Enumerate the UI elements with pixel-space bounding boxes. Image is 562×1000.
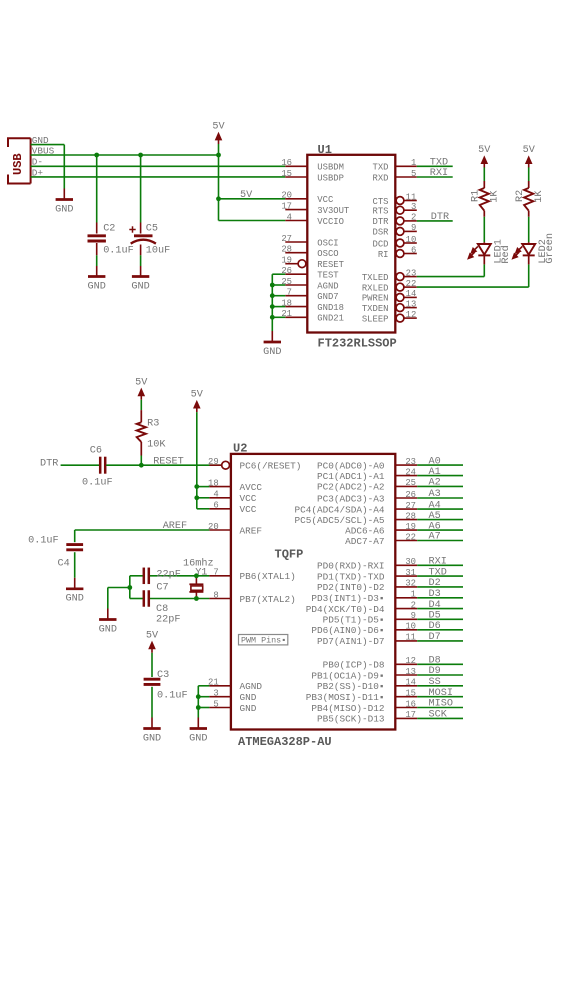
svg-text:7: 7 <box>287 288 292 298</box>
svg-text:4: 4 <box>287 212 292 222</box>
U1 pin 5 RXD <box>395 176 417 178</box>
junction VCC <box>216 196 221 201</box>
wire net MOSI <box>417 696 463 698</box>
wire net A1 <box>417 475 463 477</box>
U2 pin 19 ADC6-A6 <box>395 529 417 531</box>
svg-text:DTR: DTR <box>40 459 58 470</box>
LED LED1 <box>483 242 485 244</box>
svg-text:GND: GND <box>263 347 281 358</box>
svg-text:A1: A1 <box>429 467 441 478</box>
U2 pin 21 AGND <box>209 685 231 687</box>
svg-text:27: 27 <box>281 234 292 244</box>
svg-text:21: 21 <box>208 678 219 688</box>
svg-text:PB6(XTAL1): PB6(XTAL1) <box>240 571 296 582</box>
svg-text:22: 22 <box>406 279 417 289</box>
U2 pin 30 PD0(RXD)-RXI <box>395 564 417 566</box>
svg-text:ATMEGA328P-AU: ATMEGA328P-AU <box>238 735 332 749</box>
svg-text:D8: D8 <box>429 656 441 667</box>
svg-text:DSR: DSR <box>373 228 390 238</box>
svg-text:3: 3 <box>411 202 416 212</box>
svg-text:VCCIO: VCCIO <box>317 217 344 227</box>
wire VBUS net <box>31 154 219 156</box>
svg-text:32: 32 <box>405 579 416 589</box>
svg-text:ADC6-A6: ADC6-A6 <box>345 525 385 536</box>
U2 pin 20 AREF <box>209 529 231 531</box>
C5 plus sign <box>129 229 135 231</box>
U1 pin 26 TEST <box>285 273 307 275</box>
supply symbol 5V (C3) <box>148 641 156 650</box>
U1 pin 17 3V3OUT <box>285 209 307 211</box>
svg-text:TXDEN: TXDEN <box>362 304 389 314</box>
svg-text:5: 5 <box>411 169 416 179</box>
svg-text:RXD: RXD <box>373 173 389 183</box>
svg-text:1: 1 <box>411 158 416 168</box>
wire U1 ground chain <box>272 273 285 275</box>
wire net A3 <box>417 497 463 499</box>
svg-text:GND: GND <box>66 594 84 605</box>
svg-text:23: 23 <box>406 268 417 278</box>
wire net D2 <box>417 586 463 588</box>
U1 pin 23 TXLED <box>396 273 404 281</box>
svg-text:D7: D7 <box>429 632 441 643</box>
svg-text:PWREN: PWREN <box>362 294 389 304</box>
U2 pin 14 PB2(SS)-D10▪ <box>395 685 417 687</box>
svg-text:A3: A3 <box>429 489 441 500</box>
U2 pin 28 PC5(ADC5/SCL)-A5 <box>395 519 417 521</box>
svg-text:GND: GND <box>99 624 117 635</box>
svg-text:TEST: TEST <box>317 271 338 281</box>
svg-text:D2: D2 <box>429 578 441 589</box>
svg-text:3: 3 <box>213 689 218 699</box>
svg-text:ADC7-A7: ADC7-A7 <box>345 536 384 547</box>
svg-text:RESET: RESET <box>153 457 184 468</box>
wire net TXD <box>417 575 463 577</box>
wire net A5 <box>417 519 463 521</box>
svg-text:9: 9 <box>411 611 416 621</box>
U2 pin 3 GND <box>209 696 231 698</box>
U2 pin 12 PB0(ICP)-D8 <box>395 663 417 665</box>
svg-text:PB7(XTAL2): PB7(XTAL2) <box>240 594 296 605</box>
ground symbol below U1 <box>271 331 273 342</box>
wire C7/C8 left side <box>129 576 131 599</box>
svg-text:PB0(ICP)-D8: PB0(ICP)-D8 <box>323 660 385 671</box>
U1 pin 11 CTS <box>396 197 404 205</box>
svg-text:PB5(SCK)-D13: PB5(SCK)-D13 <box>317 714 385 725</box>
svg-text:5: 5 <box>213 699 218 709</box>
U1 pin 7 GND7 <box>285 295 307 297</box>
supply symbol 5V (U2 VCC) <box>193 400 201 409</box>
svg-text:A7: A7 <box>429 532 441 543</box>
U2 pin 29 PC6(/RESET) <box>209 464 221 466</box>
U2 pin 7 PB6(XTAL1) <box>209 575 231 577</box>
svg-text:5V: 5V <box>212 122 225 133</box>
wire net A4 <box>417 508 463 510</box>
svg-text:14: 14 <box>405 678 416 688</box>
junction AGND <box>270 283 275 288</box>
U1 pin 12 SLEEP <box>396 314 404 322</box>
svg-text:Y1: Y1 <box>195 567 207 578</box>
svg-text:5V: 5V <box>135 377 148 388</box>
wire R2 to LED2 <box>528 217 530 242</box>
U1 pin 4 VCCIO <box>285 220 307 222</box>
U2 pin 13 PB1(OC1A)-D9▪ <box>395 674 417 676</box>
svg-text:10uF: 10uF <box>146 246 170 257</box>
svg-text:D3: D3 <box>429 589 441 600</box>
svg-text:OSCO: OSCO <box>317 249 338 259</box>
svg-text:PD0(RXD)-RXI: PD0(RXD)-RXI <box>317 561 385 572</box>
wire net SCK <box>417 717 463 719</box>
U1 pin 14 PWREN <box>396 294 404 302</box>
svg-text:RI: RI <box>378 250 389 260</box>
svg-text:10: 10 <box>406 235 417 245</box>
svg-text:30: 30 <box>405 557 416 567</box>
wire USB GND pin to ground <box>31 144 65 146</box>
svg-text:11: 11 <box>405 633 416 643</box>
svg-text:22pF: 22pF <box>156 615 180 626</box>
junction GND7 <box>270 293 275 298</box>
svg-text:PC3(ADC3)-A3: PC3(ADC3)-A3 <box>317 493 385 504</box>
svg-text:PC0(ADC0)-A0: PC0(ADC0)-A0 <box>317 460 385 471</box>
IC U2 body <box>231 454 395 730</box>
capacitor C6 <box>99 457 102 474</box>
capacitor C2 <box>88 234 106 237</box>
svg-text:MOSI: MOSI <box>429 688 453 699</box>
svg-text:GND: GND <box>240 692 257 703</box>
U2 pin 32 PD2(INT0)-D2 <box>395 586 417 588</box>
svg-text:27: 27 <box>405 501 416 511</box>
wire net MISO <box>417 707 463 709</box>
wire C6 to RESET node <box>106 464 221 466</box>
svg-text:VCC: VCC <box>317 195 333 205</box>
svg-text:PD7(AIN1)-D7: PD7(AIN1)-D7 <box>317 636 385 647</box>
svg-text:6: 6 <box>213 501 218 511</box>
svg-text:TXD: TXD <box>373 163 389 173</box>
wire down to ground <box>107 588 109 609</box>
junction C7/C8/GND <box>127 585 132 590</box>
svg-text:22pF: 22pF <box>156 570 180 581</box>
svg-text:OSCI: OSCI <box>317 238 338 248</box>
svg-text:0.1uF: 0.1uF <box>28 536 59 547</box>
svg-text:PD3(INT1)-D3▪: PD3(INT1)-D3▪ <box>311 593 384 604</box>
svg-text:PD5(T1)-D5▪: PD5(T1)-D5▪ <box>323 615 385 626</box>
svg-text:D6: D6 <box>429 621 441 632</box>
svg-text:R1: R1 <box>471 190 482 202</box>
svg-text:13: 13 <box>406 299 417 309</box>
svg-text:23: 23 <box>405 457 416 467</box>
ground symbol below C4 <box>74 578 76 589</box>
svg-text:24: 24 <box>405 467 416 477</box>
svg-text:0.1uF: 0.1uF <box>103 246 134 257</box>
svg-text:A0: A0 <box>429 456 441 467</box>
svg-text:VCC: VCC <box>240 493 257 504</box>
svg-text:PD6(AIN0)-D6▪: PD6(AIN0)-D6▪ <box>311 625 384 636</box>
junction 5V/VBUS <box>216 153 221 158</box>
svg-text:RTS: RTS <box>373 207 389 217</box>
U1 pin 9 DSR <box>396 228 404 236</box>
junction RESET/R3 <box>139 463 144 468</box>
svg-text:AVCC: AVCC <box>240 482 263 493</box>
supply symbol 5V (R2) <box>525 155 533 164</box>
U2 pin 4 VCC <box>209 497 231 499</box>
svg-text:0.1uF: 0.1uF <box>82 478 113 489</box>
wire U2 ground chain <box>198 685 209 687</box>
junction GND21 <box>270 315 275 320</box>
wire net TXD <box>417 165 453 167</box>
svg-text:U2: U2 <box>233 442 247 456</box>
wire net D7 <box>417 640 463 642</box>
wire net A6 <box>417 529 463 531</box>
svg-text:TXD: TXD <box>430 157 448 168</box>
svg-text:12: 12 <box>406 310 417 320</box>
svg-text:20: 20 <box>208 522 219 532</box>
wire C4 to ground <box>74 552 76 578</box>
svg-text:A2: A2 <box>429 478 441 489</box>
svg-text:GND: GND <box>240 703 257 714</box>
svg-text:PB3(MOSI)-D11▪: PB3(MOSI)-D11▪ <box>306 692 385 703</box>
svg-text:C4: C4 <box>58 559 70 570</box>
U2 pin 10 PD6(AIN0)-D6▪ <box>395 629 417 631</box>
U2 pin 9 PD5(T1)-D5▪ <box>395 618 417 620</box>
svg-text:GND18: GND18 <box>317 303 344 313</box>
junction VBUS/C2 <box>94 153 99 158</box>
capacitor C4 <box>66 543 83 546</box>
svg-text:PD2(INT0)-D2: PD2(INT0)-D2 <box>317 582 385 593</box>
svg-text:29: 29 <box>208 457 219 467</box>
U1 pin 1 TXD <box>395 165 417 167</box>
U2 pin 17 PB5(SCK)-D13 <box>395 717 417 719</box>
svg-text:GND7: GND7 <box>317 292 338 302</box>
svg-text:USB: USB <box>11 153 25 175</box>
svg-text:13: 13 <box>405 667 416 677</box>
svg-text:2: 2 <box>411 600 416 610</box>
USB connector X1 <box>8 138 31 183</box>
svg-text:17: 17 <box>281 201 292 211</box>
svg-text:PC4(ADC4/SDA)-A4: PC4(ADC4/SDA)-A4 <box>294 504 384 515</box>
wire D+ net <box>31 176 286 178</box>
svg-text:PWM Pins▪: PWM Pins▪ <box>241 636 286 646</box>
svg-text:C7: C7 <box>156 582 168 593</box>
svg-text:6: 6 <box>411 245 416 255</box>
wire net D4 <box>417 608 463 610</box>
U2 pin 22 ADC7-A7 <box>395 540 417 542</box>
U2 pin 8 PB7(XTAL2) <box>209 598 231 600</box>
svg-text:PC6(/RESET): PC6(/RESET) <box>240 461 302 472</box>
U1 pin 2 DTR <box>396 217 404 225</box>
svg-text:USBDP: USBDP <box>317 173 344 183</box>
wire 5V to R1 <box>483 167 485 181</box>
wire R3 to RESET <box>140 456 142 466</box>
svg-text:A5: A5 <box>429 511 441 522</box>
wire net RXI <box>417 176 453 178</box>
svg-text:PD4(XCK/T0)-D4: PD4(XCK/T0)-D4 <box>306 604 385 615</box>
svg-text:PC1(ADC1)-A1: PC1(ADC1)-A1 <box>317 471 385 482</box>
svg-text:CTS: CTS <box>373 197 389 207</box>
junction GND pin5 <box>196 705 201 710</box>
U2 pin 24 PC1(ADC1)-A1 <box>395 475 417 477</box>
svg-text:AGND: AGND <box>317 281 338 291</box>
junction VCC <box>194 495 199 500</box>
U1 pin 20 VCC <box>285 198 307 200</box>
svg-text:15: 15 <box>405 689 416 699</box>
svg-text:5V: 5V <box>523 145 536 156</box>
wire 5V to R3 <box>140 400 142 410</box>
U1 pin 16 USBDM <box>285 165 307 167</box>
U2 pin 5 GND <box>209 707 231 709</box>
U1 pin 18 GND18 <box>285 306 307 308</box>
capacitor C5 (polarized) <box>134 234 153 237</box>
svg-text:19: 19 <box>281 256 292 266</box>
svg-text:26: 26 <box>405 490 416 500</box>
supply symbol 5V (R1) <box>481 155 489 164</box>
junction GND18 <box>270 304 275 309</box>
junction GND pin3 <box>196 694 201 699</box>
svg-text:4: 4 <box>213 490 218 500</box>
wire R1 to LED1 <box>483 217 485 242</box>
U2 pin 11 PD7(AIN1)-D7 <box>395 640 417 642</box>
svg-text:0.1uF: 0.1uF <box>157 691 188 702</box>
svg-text:1K: 1K <box>489 190 500 203</box>
U2 pin 18 AVCC <box>209 486 231 488</box>
wire net A2 <box>417 485 463 487</box>
U1 pin 15 USBDP <box>285 176 307 178</box>
junction VBUS/C5 <box>138 153 143 158</box>
ground symbol below C3 <box>151 718 153 729</box>
svg-text:R3: R3 <box>147 418 159 429</box>
svg-text:GND: GND <box>88 281 106 292</box>
svg-text:D9: D9 <box>429 666 441 677</box>
svg-text:PB1(OC1A)-D9▪: PB1(OC1A)-D9▪ <box>311 670 384 681</box>
U2 pin 15 PB3(MOSI)-D11▪ <box>395 696 417 698</box>
svg-text:GND: GND <box>55 204 73 215</box>
svg-text:R2: R2 <box>515 190 526 202</box>
svg-text:RXI: RXI <box>429 557 447 568</box>
wire 5V down to VBUS and VCC/VCCIO <box>218 144 220 221</box>
svg-text:D5: D5 <box>429 611 441 622</box>
U2 pin 23 PC0(ADC0)-A0 <box>395 464 417 466</box>
U1 pin 3 RTS <box>396 206 404 214</box>
wire net D8 <box>417 663 463 665</box>
wire 5V to C3 <box>151 653 153 677</box>
svg-text:PB2(SS)-D10▪: PB2(SS)-D10▪ <box>317 681 385 692</box>
U1 pin 10 DCD <box>396 239 404 247</box>
svg-text:19: 19 <box>405 522 416 532</box>
svg-text:DTR: DTR <box>431 212 449 223</box>
U1 pin 13 TXDEN <box>396 304 404 312</box>
svg-text:PC5(ADC5/SCL)-A5: PC5(ADC5/SCL)-A5 <box>294 515 384 526</box>
svg-text:1: 1 <box>411 590 416 600</box>
wire VBUS to C5 <box>140 155 142 223</box>
svg-text:C6: C6 <box>90 446 102 457</box>
junction AVCC <box>194 484 199 489</box>
svg-text:AREF: AREF <box>163 521 187 532</box>
svg-text:FT232RLSSOP: FT232RLSSOP <box>318 337 397 351</box>
svg-text:8: 8 <box>213 590 218 600</box>
wire net TXLED <box>417 276 485 278</box>
wire net RXLED <box>417 286 529 288</box>
ground symbol below C2 <box>96 266 98 277</box>
svg-text:SLEEP: SLEEP <box>362 314 389 324</box>
svg-text:D4: D4 <box>429 600 441 611</box>
svg-text:18: 18 <box>208 478 219 488</box>
svg-text:15: 15 <box>281 169 292 179</box>
resistor R3 <box>140 410 142 422</box>
svg-text:A4: A4 <box>429 500 441 511</box>
ground symbol below USB <box>63 189 65 200</box>
LED LED2 <box>528 242 530 244</box>
svg-text:2: 2 <box>411 213 416 223</box>
svg-text:25: 25 <box>405 478 416 488</box>
svg-text:SS: SS <box>429 677 441 688</box>
svg-text:14: 14 <box>406 289 417 299</box>
op-amp/IC U1 body <box>307 155 395 333</box>
svg-text:28: 28 <box>281 245 292 255</box>
resistor R2 <box>528 181 530 188</box>
svg-text:GND: GND <box>143 733 161 744</box>
wire net D9 <box>417 674 463 676</box>
svg-text:Red: Red <box>500 245 512 263</box>
svg-text:16: 16 <box>405 699 416 709</box>
wire net D5 <box>417 618 463 620</box>
ground symbol below C5 <box>140 266 142 277</box>
wire net D6 <box>417 629 463 631</box>
capacitor C7 <box>143 568 146 585</box>
junction Y1/XTAL2 <box>194 596 199 601</box>
wire XTAL1 row <box>130 575 143 577</box>
svg-text:PB4(MISO)-D12: PB4(MISO)-D12 <box>311 703 384 714</box>
U2 pin 1 PD3(INT1)-D3▪ <box>395 597 417 599</box>
wire D- net <box>31 165 286 167</box>
svg-text:SCK: SCK <box>429 710 448 721</box>
svg-text:16: 16 <box>281 158 292 168</box>
wire net SS <box>417 685 463 687</box>
U1 pin 27 OSCI <box>285 241 307 243</box>
junction Y1/XTAL1 <box>194 573 199 578</box>
U2 pin 6 VCC <box>209 508 231 510</box>
svg-text:C5: C5 <box>146 224 158 235</box>
svg-text:AGND: AGND <box>240 681 263 692</box>
svg-text:31: 31 <box>405 568 416 578</box>
svg-text:USBDM: USBDM <box>317 163 344 173</box>
svg-text:RXLED: RXLED <box>362 283 389 293</box>
svg-text:MISO: MISO <box>429 699 453 710</box>
svg-text:PD1(TXD)-TXD: PD1(TXD)-TXD <box>317 571 385 582</box>
U2 pin 2 PD4(XCK/T0)-D4 <box>395 608 417 610</box>
wire to U1 VCC pin <box>219 198 286 200</box>
ground symbol below U2 <box>197 718 199 729</box>
wire net D3 <box>417 597 463 599</box>
PWM Pins note box <box>239 635 288 645</box>
wire DTR to C6 <box>61 464 100 466</box>
svg-text:TXD: TXD <box>429 567 447 578</box>
svg-text:12: 12 <box>405 656 416 666</box>
wire 5V to R2 <box>528 167 530 181</box>
U1 pin 25 AGND <box>285 284 307 286</box>
svg-text:TXLED: TXLED <box>362 273 389 283</box>
svg-text:C3: C3 <box>157 670 169 681</box>
svg-text:A6: A6 <box>429 521 441 532</box>
LED2 emission arrows <box>513 246 523 258</box>
wire net A0 <box>417 464 463 466</box>
svg-text:10K: 10K <box>147 440 166 451</box>
wire C5 to ground <box>140 245 142 256</box>
svg-text:TQFP: TQFP <box>275 548 304 562</box>
capacitor C3 <box>144 678 161 681</box>
wire net DTR <box>417 220 453 222</box>
svg-text:17: 17 <box>405 710 416 720</box>
supply symbol 5V (R3) <box>138 388 146 397</box>
svg-text:7: 7 <box>213 568 218 578</box>
U2 pin 27 PC4(ADC4/SDA)-A4 <box>395 508 417 510</box>
